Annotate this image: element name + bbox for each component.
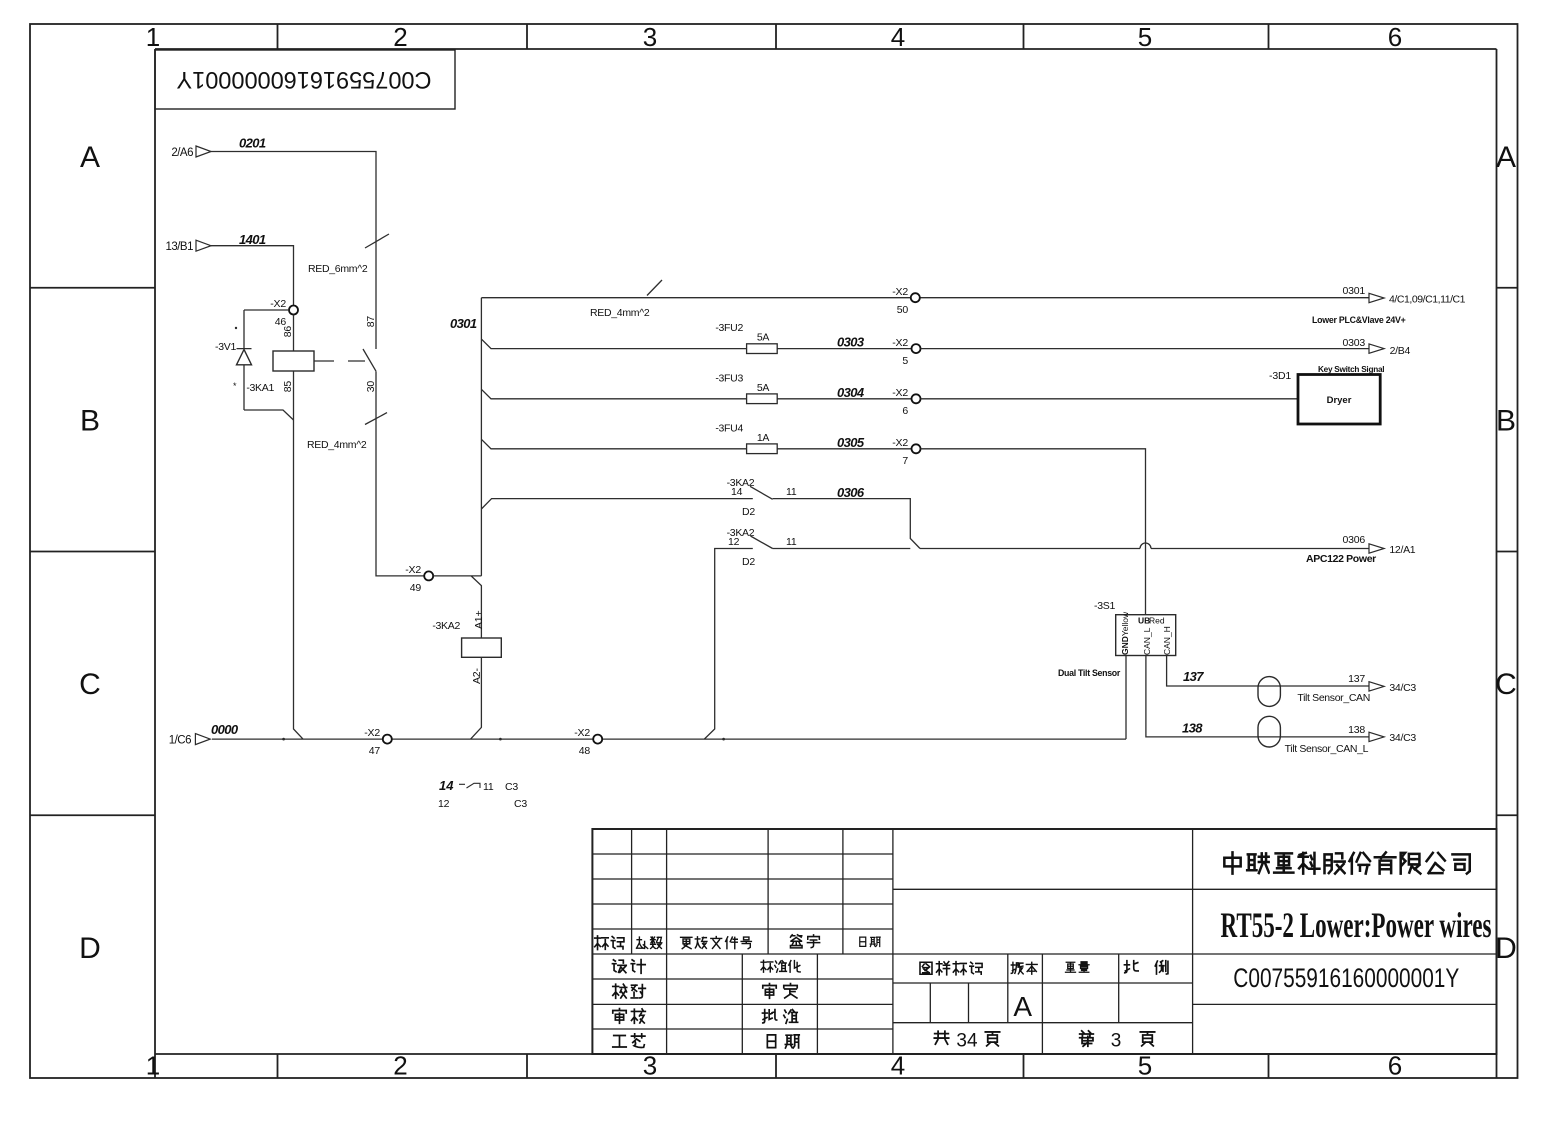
wire 0303 right + arrow 2/B4 (921, 337, 1411, 357)
svg-text:5: 5 (902, 355, 908, 367)
svg-text:Dryer: Dryer (1327, 395, 1352, 406)
svg-text:RED_6mm^2: RED_6mm^2 (308, 263, 368, 275)
fuse -3FU2 (747, 344, 778, 354)
cross reference -3KA2 contacts (438, 778, 527, 810)
wire 0303 with fuse -3FU2 (481, 322, 911, 350)
svg-text:0305: 0305 (837, 435, 865, 450)
connector -X2:5 (892, 337, 920, 367)
svg-text:B: B (1496, 405, 1516, 438)
drawing number box (rotated) (155, 50, 455, 109)
svg-text:0303: 0303 (837, 335, 865, 350)
svg-text:2/B4: 2/B4 (1390, 345, 1411, 357)
svg-text:RED_4mm^2: RED_4mm^2 (307, 439, 367, 451)
svg-text:Red: Red (1149, 616, 1165, 626)
wire 0301 top (481, 280, 1369, 319)
net arrow 0301 right (1312, 285, 1466, 325)
wire 0306 branch to contact -3KA2 14 (481, 477, 796, 518)
svg-text:13/B1: 13/B1 (165, 241, 193, 253)
svg-text:-X2: -X2 (892, 387, 908, 399)
svg-text:-3D1: -3D1 (1269, 370, 1291, 382)
svg-text:-3V1: -3V1 (215, 341, 236, 353)
wire 0304 right to Dryer (921, 398, 1299, 400)
svg-text:7: 7 (902, 455, 908, 467)
svg-text:47: 47 (369, 745, 381, 757)
svg-text:1: 1 (146, 1051, 160, 1081)
svg-text:5: 5 (1138, 22, 1152, 52)
wire A2- to 0000 bus (471, 657, 482, 739)
contact -3KA2 12/11 blade (751, 536, 773, 549)
source arrow 2/A6 (171, 146, 211, 159)
relay coil -3KA2 (432, 611, 501, 684)
svg-text:-3FU3: -3FU3 (715, 372, 743, 384)
title block (592, 829, 1496, 1054)
wire 0305 with fuse -3FU4 (481, 422, 911, 450)
svg-text:2/A6: 2/A6 (171, 147, 193, 159)
svg-text:50: 50 (897, 304, 909, 316)
svg-text:-X2: -X2 (364, 727, 380, 739)
svg-text:-3FU4: -3FU4 (715, 422, 743, 434)
svg-text:0306: 0306 (837, 485, 865, 500)
svg-text:A: A (1013, 991, 1032, 1022)
svg-text:0000: 0000 (211, 722, 239, 737)
wire 0305 right down to -3S1 UB (921, 449, 1146, 615)
svg-text:5A: 5A (757, 382, 770, 394)
svg-text:34/C3: 34/C3 (1389, 732, 1416, 744)
svg-text:4/C1,09/C1,11/C1: 4/C1,09/C1,11/C1 (1389, 294, 1466, 306)
source arrow 13/B1 (165, 240, 211, 253)
svg-text:11: 11 (483, 781, 494, 793)
svg-text:C3: C3 (505, 781, 518, 793)
svg-text:APC122 Power: APC122 Power (1306, 553, 1376, 565)
wire 0201 (210, 136, 376, 350)
svg-text:48: 48 (579, 745, 591, 757)
svg-text:12: 12 (728, 536, 740, 548)
svg-text:1/C6: 1/C6 (169, 735, 191, 747)
wire 0304 with fuse -3FU3 (481, 372, 911, 400)
svg-text:137: 137 (1183, 669, 1204, 684)
connector -X2:50 (892, 286, 920, 316)
svg-text:1401: 1401 (239, 232, 266, 247)
wire 30 down with gauge slash RED_4mm^2 (307, 371, 424, 576)
svg-text:Key Switch Signal: Key Switch Signal (1318, 365, 1384, 374)
svg-text:-X2: -X2 (574, 727, 590, 739)
svg-text:-3FU2: -3FU2 (715, 322, 743, 334)
svg-text:C00755916160000001Y: C00755916160000001Y (177, 66, 432, 93)
connector -X2:49 (405, 564, 433, 594)
svg-text:3: 3 (643, 22, 657, 52)
svg-text:6: 6 (902, 405, 908, 417)
svg-text:A: A (80, 141, 100, 174)
junction dots on 0000 bus (282, 738, 725, 741)
svg-text:1: 1 (146, 22, 160, 52)
svg-text:CAN_L: CAN_L (1142, 627, 1152, 655)
svg-text:86: 86 (282, 326, 294, 338)
wire to bus riser and -3KA2 coil (433, 576, 481, 638)
stamp area labels (920, 961, 1168, 1052)
contact -3KA1 87/30 (314, 316, 377, 393)
svg-text:0303: 0303 (1342, 337, 1365, 349)
wire coil 86 (282, 315, 294, 352)
svg-text:137: 137 (1348, 673, 1365, 685)
svg-text:-X2: -X2 (405, 564, 421, 576)
title block signature rows (612, 960, 800, 1048)
svg-text:-X2: -X2 (892, 286, 908, 298)
svg-text:Tilt Sensor_CAN_L: Tilt Sensor_CAN_L (1285, 743, 1369, 755)
svg-text:C: C (1495, 668, 1517, 701)
source arrow 1/C6 wire 0000 (169, 722, 239, 747)
relay coil -3KA1 (246, 351, 314, 394)
svg-text:6: 6 (1388, 22, 1402, 52)
svg-text:14: 14 (731, 486, 743, 498)
svg-text:Lower PLC&Vlave 24V+: Lower PLC&Vlave 24V+ (1312, 315, 1406, 325)
svg-text:49: 49 (410, 582, 422, 594)
wire to contact -3KA2 12 (704, 527, 797, 739)
svg-text:1A: 1A (757, 432, 770, 444)
svg-text:RED_4mm^2: RED_4mm^2 (590, 307, 650, 319)
svg-text:0201: 0201 (239, 136, 266, 151)
title block header row labels (595, 935, 880, 950)
svg-text:4: 4 (891, 22, 905, 52)
connector -X2:7 (892, 437, 920, 467)
svg-text:0304: 0304 (837, 385, 865, 400)
svg-text:2: 2 (393, 22, 407, 52)
svg-text:34: 34 (956, 1031, 978, 1052)
bus riser 0301 (450, 298, 481, 576)
svg-text:14: 14 (439, 778, 454, 793)
company name (1224, 852, 1469, 873)
svg-text:138: 138 (1348, 724, 1365, 736)
svg-text:0306: 0306 (1342, 534, 1365, 546)
svg-text:30: 30 (365, 381, 377, 393)
wire 138 CAN_L (1146, 656, 1416, 756)
svg-text:A: A (1496, 141, 1516, 174)
svg-text:11: 11 (786, 536, 797, 548)
connector -X2:48 (574, 727, 602, 757)
svg-text:12: 12 (438, 798, 450, 810)
wire GND to 0000 (1125, 656, 1127, 740)
svg-text:12/A1: 12/A1 (1389, 544, 1415, 556)
svg-text:Dual Tilt Sensor: Dual Tilt Sensor (1058, 668, 1121, 678)
svg-text:D2: D2 (742, 506, 755, 518)
dual tilt sensor -3S1 (1058, 600, 1176, 678)
svg-text:-X2: -X2 (270, 298, 286, 310)
wire 0306 right with hop, arrow 12/A1 (773, 534, 1416, 565)
svg-text:-X2: -X2 (892, 437, 908, 449)
svg-text:C3: C3 (514, 798, 527, 810)
svg-text:-X2: -X2 (892, 337, 908, 349)
svg-text:A1+: A1+ (473, 611, 485, 629)
wire 0306 (773, 485, 920, 549)
wire gauge slash RED_6mm^2 (308, 234, 389, 275)
svg-text:D: D (79, 932, 101, 965)
svg-text:138: 138 (1182, 721, 1203, 736)
svg-text:C: C (79, 668, 101, 701)
svg-text:87: 87 (365, 316, 377, 328)
svg-text:D2: D2 (742, 556, 755, 568)
svg-text:11: 11 (786, 486, 797, 498)
contact -3KA2 14/11 blade (750, 486, 773, 499)
svg-text:0301: 0301 (1342, 285, 1365, 297)
connector -X2:46 (270, 298, 298, 328)
svg-text:0301: 0301 (450, 316, 477, 331)
svg-text:-3KA1: -3KA1 (246, 382, 274, 394)
svg-text:C00755916160000001Y: C00755916160000001Y (1233, 963, 1459, 993)
svg-text:B: B (80, 405, 100, 438)
svg-text:RT55-2 Lower:Power wires: RT55-2 Lower:Power wires (1221, 905, 1492, 945)
wire 1401 (210, 232, 294, 306)
connector -X2:6 (892, 387, 920, 417)
fuse -3FU3 (747, 394, 778, 404)
wire 137 CAN_H (1167, 656, 1417, 705)
twisted pair symbol (1258, 677, 1280, 747)
wire 0000 bus (212, 738, 1126, 740)
connector -X2:47 (364, 727, 392, 757)
svg-text:34/C3: 34/C3 (1389, 682, 1416, 694)
svg-text:-3KA2: -3KA2 (432, 620, 460, 632)
svg-text:-3S1: -3S1 (1094, 600, 1115, 612)
svg-text:3: 3 (1111, 1031, 1122, 1052)
svg-text:Tilt Sensor_CAN: Tilt Sensor_CAN (1297, 692, 1370, 704)
Dryer box -3D1 (1269, 365, 1384, 424)
svg-text:2: 2 (393, 1051, 407, 1081)
svg-text:85: 85 (282, 381, 294, 393)
fuse -3FU4 (747, 444, 778, 454)
diode -3V1 (215, 310, 293, 420)
svg-text:D: D (1495, 932, 1517, 965)
svg-text:GNDYellow: GNDYellow (1120, 611, 1130, 655)
svg-text:CAN_H: CAN_H (1162, 626, 1172, 655)
wire 85 down to 0000 bus (282, 371, 303, 739)
svg-text:5A: 5A (757, 332, 770, 344)
